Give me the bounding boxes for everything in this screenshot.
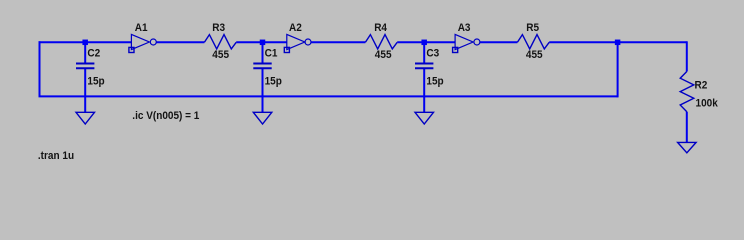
resistor R4: [365, 35, 397, 49]
wire C2 top lead: [84, 42, 86, 63]
svg-text:455: 455: [375, 48, 392, 61]
svg-text:455: 455: [212, 48, 229, 61]
ground under C3: [415, 112, 434, 124]
resistor R5: [517, 35, 549, 49]
wire C1 top lead: [262, 42, 264, 63]
wire A3 output to R5: [480, 41, 517, 43]
svg-text:A3: A3: [458, 22, 471, 35]
svg-text:C3: C3: [426, 47, 439, 60]
svg-text:R3: R3: [212, 22, 225, 35]
wire R3 to A2 input: [236, 41, 287, 43]
resistor R3: [204, 35, 236, 49]
junction node N002 (C1 / A2 input): [260, 40, 266, 46]
wire top segment left (feedback node to A1 input): [39, 41, 132, 43]
svg-text:455: 455: [526, 48, 543, 61]
wire bottom feedback: [39, 95, 618, 97]
svg-text:C1: C1: [265, 47, 278, 60]
capacitor C3: [415, 64, 433, 69]
wire C1 bottom lead: [262, 68, 264, 112]
op-amp inverter A2: [284, 34, 311, 52]
svg-text:R5: R5: [526, 22, 539, 35]
svg-text:C2: C2: [87, 47, 100, 60]
wire feedback vertical: [617, 42, 619, 97]
svg-text:.ic V(n005) = 1: .ic V(n005) = 1: [132, 109, 199, 122]
svg-text:A1: A1: [135, 22, 148, 35]
wire left vertical: [39, 41, 41, 96]
capacitor C2: [76, 64, 94, 69]
wire R5 to right corner: [549, 41, 687, 43]
junction node N005 (output / feedback): [615, 40, 621, 46]
svg-text:15p: 15p: [87, 75, 105, 88]
ground under R2: [678, 142, 697, 152]
svg-text:A2: A2: [289, 22, 302, 35]
junction node N001 (C2 / A1 input): [82, 40, 88, 46]
wire A1 output to R3: [157, 41, 205, 43]
svg-text:.tran 1u: .tran 1u: [38, 150, 74, 163]
wire right vertical to R2: [686, 41, 688, 71]
wire C3 bottom lead: [423, 68, 425, 112]
svg-text:100k: 100k: [696, 97, 718, 110]
svg-text:R4: R4: [374, 22, 387, 35]
junction node N003 (C3 / A3 input): [421, 40, 427, 46]
wire A2 output to R4: [311, 41, 365, 43]
svg-text:R2: R2: [695, 79, 708, 92]
wire C3 top lead: [423, 42, 425, 63]
ground under C1: [253, 112, 271, 124]
resistor R2 (vertical): [680, 72, 694, 112]
svg-text:15p: 15p: [265, 75, 283, 88]
wire C2 bottom lead: [84, 68, 86, 112]
wire R2 bottom lead: [686, 112, 688, 143]
wire R4 to A3 input: [397, 41, 455, 43]
op-amp inverter A3: [453, 34, 480, 52]
svg-text:15p: 15p: [426, 75, 444, 88]
op-amp inverter A1: [129, 34, 156, 52]
capacitor C1: [253, 64, 271, 69]
ground under C2: [76, 112, 95, 124]
